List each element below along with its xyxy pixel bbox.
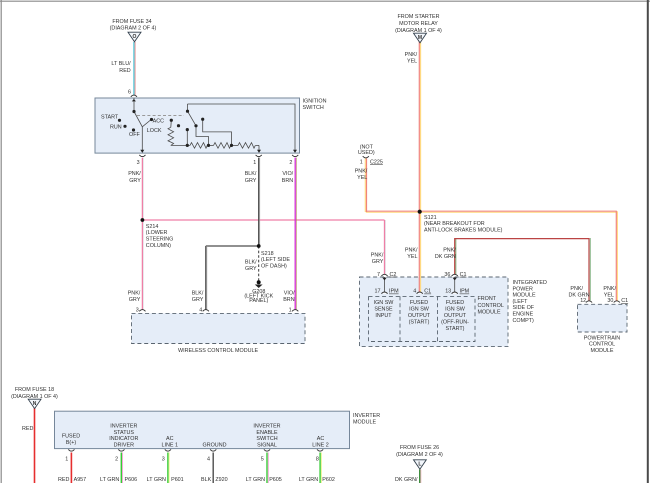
svg-text:4: 4 bbox=[207, 456, 210, 462]
svg-text:C1: C1 bbox=[621, 298, 628, 304]
svg-text:N: N bbox=[33, 401, 37, 407]
svg-text:3: 3 bbox=[136, 308, 139, 314]
svg-text:BLK/: BLK/ bbox=[245, 171, 257, 177]
svg-text:O: O bbox=[133, 34, 137, 40]
svg-text:ENGINE: ENGINE bbox=[513, 312, 534, 318]
svg-text:INTEGRATED: INTEGRATED bbox=[513, 280, 547, 286]
svg-text:PNK/: PNK/ bbox=[355, 168, 368, 174]
svg-text:RED: RED bbox=[22, 426, 33, 432]
svg-text:PNK/: PNK/ bbox=[405, 247, 418, 253]
svg-text:BRN: BRN bbox=[283, 297, 294, 303]
svg-text:FROM FUSE 18: FROM FUSE 18 bbox=[15, 387, 54, 393]
svg-text:LT BLU/: LT BLU/ bbox=[111, 61, 131, 67]
svg-text:DK GRN: DK GRN bbox=[569, 292, 590, 298]
svg-text:3: 3 bbox=[137, 160, 140, 166]
svg-text:30: 30 bbox=[607, 298, 613, 304]
svg-text:BLK/: BLK/ bbox=[245, 259, 257, 265]
svg-text:OFF: OFF bbox=[129, 132, 140, 138]
svg-text:START: START bbox=[101, 114, 119, 120]
svg-text:36: 36 bbox=[444, 272, 450, 278]
svg-text:AC: AC bbox=[166, 436, 174, 442]
svg-text:OUTPUT: OUTPUT bbox=[408, 313, 431, 319]
svg-text:YEL: YEL bbox=[407, 254, 417, 260]
svg-text:1: 1 bbox=[253, 160, 256, 166]
svg-text:4: 4 bbox=[199, 308, 202, 314]
svg-text:FROM FUSE 34: FROM FUSE 34 bbox=[112, 19, 151, 25]
svg-text:PNK/: PNK/ bbox=[128, 290, 141, 296]
svg-text:VIO/: VIO/ bbox=[282, 171, 293, 177]
svg-text:GRY: GRY bbox=[129, 297, 141, 303]
svg-text:POWERTRAIN: POWERTRAIN bbox=[584, 335, 621, 341]
svg-text:SWITCH: SWITCH bbox=[256, 436, 277, 442]
svg-text:LT GRN: LT GRN bbox=[147, 477, 166, 483]
svg-text:(START): (START) bbox=[409, 320, 430, 326]
svg-text:FUSED: FUSED bbox=[446, 300, 464, 306]
svg-text:FROM FUSE 26: FROM FUSE 26 bbox=[400, 445, 439, 451]
svg-text:FRONT: FRONT bbox=[478, 296, 497, 302]
svg-text:CONTROL: CONTROL bbox=[589, 342, 615, 348]
svg-text:SENSE: SENSE bbox=[374, 306, 393, 312]
svg-text:DRIVER: DRIVER bbox=[114, 443, 134, 449]
svg-text:BRN: BRN bbox=[282, 178, 293, 184]
svg-text:ACC: ACC bbox=[153, 119, 164, 125]
svg-text:12: 12 bbox=[580, 298, 586, 304]
svg-text:BLK/: BLK/ bbox=[192, 290, 204, 296]
svg-text:3: 3 bbox=[162, 456, 165, 462]
svg-text:4: 4 bbox=[413, 289, 416, 295]
svg-text:L: L bbox=[418, 461, 421, 467]
svg-text:17: 17 bbox=[375, 289, 381, 295]
svg-text:INPUT: INPUT bbox=[375, 313, 392, 319]
svg-text:8: 8 bbox=[316, 456, 319, 462]
svg-text:COLUMN): COLUMN) bbox=[146, 243, 171, 249]
svg-text:(DIAGRAM 2 OF 4): (DIAGRAM 2 OF 4) bbox=[110, 25, 157, 31]
svg-text:1: 1 bbox=[360, 159, 363, 165]
svg-text:FUSED: FUSED bbox=[62, 433, 80, 439]
svg-text:GRY: GRY bbox=[245, 266, 257, 272]
svg-text:PNK/: PNK/ bbox=[570, 286, 583, 292]
svg-text:IGNITION: IGNITION bbox=[303, 98, 327, 104]
svg-text:P605: P605 bbox=[269, 477, 282, 483]
svg-text:IGN SW: IGN SW bbox=[409, 306, 430, 312]
svg-text:(DIAGRAM 1 OF 4): (DIAGRAM 1 OF 4) bbox=[395, 28, 442, 34]
svg-text:MODULE: MODULE bbox=[513, 293, 536, 299]
svg-text:LT GRN: LT GRN bbox=[100, 477, 119, 483]
svg-text:GRY: GRY bbox=[192, 297, 204, 303]
svg-text:START): START) bbox=[446, 326, 465, 332]
svg-text:YEL: YEL bbox=[407, 58, 417, 64]
svg-text:USED): USED) bbox=[358, 150, 375, 156]
svg-text:Z920: Z920 bbox=[215, 477, 227, 483]
svg-text:MODULE: MODULE bbox=[590, 348, 613, 354]
svg-text:FROM STARTER: FROM STARTER bbox=[397, 14, 439, 20]
svg-text:INVERTER: INVERTER bbox=[110, 423, 137, 429]
svg-text:LINE 2: LINE 2 bbox=[312, 443, 328, 449]
svg-text:C225: C225 bbox=[370, 159, 383, 165]
svg-text:MODULE: MODULE bbox=[478, 309, 501, 315]
svg-text:PANEL): PANEL) bbox=[249, 298, 268, 304]
svg-text:IPM: IPM bbox=[389, 289, 399, 295]
svg-text:M: M bbox=[418, 35, 422, 41]
svg-text:COMPT): COMPT) bbox=[513, 318, 534, 324]
svg-text:SWITCH: SWITCH bbox=[303, 105, 324, 111]
svg-text:2: 2 bbox=[289, 160, 292, 166]
svg-text:ENABLE: ENABLE bbox=[256, 430, 278, 436]
svg-text:OF DASH): OF DASH) bbox=[261, 264, 287, 270]
svg-text:P601: P601 bbox=[171, 477, 184, 483]
svg-text:SIDE OF: SIDE OF bbox=[513, 305, 535, 311]
svg-text:IGN SW: IGN SW bbox=[374, 300, 395, 306]
svg-text:SIGNAL: SIGNAL bbox=[257, 443, 277, 449]
svg-text:LOCK: LOCK bbox=[147, 128, 162, 134]
svg-text:2: 2 bbox=[115, 456, 118, 462]
svg-text:IPM: IPM bbox=[460, 289, 470, 295]
svg-text:INVERTER: INVERTER bbox=[253, 423, 280, 429]
svg-text:WIRELESS CONTROL MODULE: WIRELESS CONTROL MODULE bbox=[178, 348, 258, 354]
svg-text:MODULE: MODULE bbox=[353, 420, 376, 426]
svg-text:13: 13 bbox=[445, 289, 451, 295]
svg-text:FUSED: FUSED bbox=[410, 300, 428, 306]
svg-text:(LEFT: (LEFT bbox=[513, 299, 529, 305]
svg-text:RED: RED bbox=[58, 477, 69, 483]
svg-text:PNK/: PNK/ bbox=[443, 247, 456, 253]
svg-text:7: 7 bbox=[377, 272, 380, 278]
svg-text:C1: C1 bbox=[460, 272, 467, 278]
svg-text:P602: P602 bbox=[322, 477, 335, 483]
svg-text:1: 1 bbox=[289, 308, 292, 314]
svg-text:INVERTER: INVERTER bbox=[353, 413, 380, 419]
svg-text:STEERING: STEERING bbox=[146, 237, 174, 243]
svg-text:(OFF-RUN-: (OFF-RUN- bbox=[441, 320, 469, 326]
svg-text:PNK/: PNK/ bbox=[371, 252, 384, 258]
svg-text:GRY: GRY bbox=[372, 259, 384, 265]
svg-text:GROUND: GROUND bbox=[203, 443, 227, 449]
svg-text:VIO/: VIO/ bbox=[284, 290, 295, 296]
svg-text:MOTOR RELAY: MOTOR RELAY bbox=[399, 21, 438, 27]
svg-text:PNK/: PNK/ bbox=[603, 286, 616, 292]
svg-text:P606: P606 bbox=[125, 477, 138, 483]
svg-text:(LEFT SIDE: (LEFT SIDE bbox=[261, 257, 290, 263]
svg-text:(LOWER: (LOWER bbox=[146, 230, 168, 236]
svg-text:B(+): B(+) bbox=[66, 440, 77, 446]
svg-text:CONTROL: CONTROL bbox=[478, 303, 504, 309]
svg-text:DK GRN/: DK GRN/ bbox=[395, 477, 418, 483]
svg-text:INDICATOR: INDICATOR bbox=[109, 436, 138, 442]
svg-text:C2: C2 bbox=[390, 272, 397, 278]
svg-text:GRY: GRY bbox=[245, 178, 257, 184]
svg-text:BLK: BLK bbox=[201, 477, 212, 483]
svg-text:5: 5 bbox=[261, 456, 264, 462]
svg-text:(DIAGRAM 2 OF 4): (DIAGRAM 2 OF 4) bbox=[396, 452, 443, 458]
svg-text:STATUS: STATUS bbox=[114, 430, 135, 436]
svg-text:A957: A957 bbox=[74, 477, 87, 483]
svg-text:AC: AC bbox=[317, 436, 325, 442]
svg-text:RED: RED bbox=[119, 68, 130, 74]
svg-text:(NEAR BREAKOUT FOR: (NEAR BREAKOUT FOR bbox=[424, 221, 485, 227]
svg-text:C1: C1 bbox=[424, 289, 431, 295]
svg-text:6: 6 bbox=[128, 89, 131, 95]
svg-text:RUN: RUN bbox=[110, 125, 122, 131]
svg-text:POWER: POWER bbox=[513, 286, 533, 292]
svg-text:S218: S218 bbox=[261, 251, 274, 257]
svg-text:LT GRN: LT GRN bbox=[299, 477, 318, 483]
svg-text:PNK/: PNK/ bbox=[128, 171, 141, 177]
svg-text:LINE 1: LINE 1 bbox=[162, 443, 178, 449]
svg-text:OUTPUT: OUTPUT bbox=[444, 313, 467, 319]
svg-text:LT GRN: LT GRN bbox=[246, 477, 265, 483]
svg-text:ANTI-LOCK BRAKES MODULE): ANTI-LOCK BRAKES MODULE) bbox=[424, 228, 503, 234]
svg-text:(DIAGRAM 1 OF 4): (DIAGRAM 1 OF 4) bbox=[11, 394, 58, 400]
svg-text:S121: S121 bbox=[424, 215, 437, 221]
svg-text:PNK/: PNK/ bbox=[405, 52, 418, 58]
svg-text:S214: S214 bbox=[146, 224, 159, 230]
svg-text:1: 1 bbox=[65, 456, 68, 462]
svg-text:DK GRN: DK GRN bbox=[435, 254, 456, 260]
svg-text:GRY: GRY bbox=[129, 178, 141, 184]
svg-text:IGN SW: IGN SW bbox=[445, 306, 466, 312]
svg-text:YEL: YEL bbox=[357, 175, 367, 181]
